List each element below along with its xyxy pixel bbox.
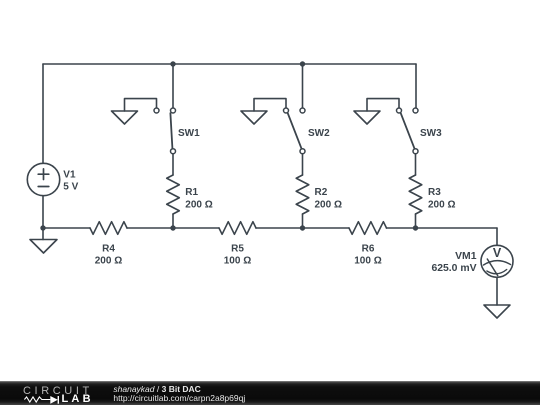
svg-text:5 V: 5 V [63,182,78,193]
node R2 / rail [300,225,305,230]
resistor R5 [219,222,256,235]
node V1 / R4 / ground [40,225,45,230]
switch SW1 [154,108,176,154]
wire R2 to rail [302,214,304,228]
resistor R4 [90,222,127,235]
voltmeter VM1 [481,245,513,277]
label R1 value [185,187,212,210]
svg-text:100 Ω: 100 Ω [224,256,251,267]
wire SW3 to R3 [415,154,417,175]
voltage source V1 [27,163,59,195]
resistor R1 [167,175,180,214]
wire bottom rail segment B [127,227,219,229]
wire SW1 to R1 [172,154,174,175]
label V1 value [63,169,78,192]
svg-text:200 Ω: 200 Ω [428,199,455,210]
node R3 / rail [413,225,418,230]
CircuitLab logo resistor-diode glyph [0,381,110,405]
wire V1 top lead [42,64,44,163]
node at SW2 top [300,61,305,66]
label R3 value [428,187,455,210]
svg-text:R2: R2 [315,187,328,198]
wire top rail [43,63,416,65]
ground (V1) [30,240,57,254]
CircuitLab logo wordmark [23,385,93,397]
svg-text:200 Ω: 200 Ω [315,199,342,210]
wire bottom rail segment C [256,227,349,229]
wire SW2 top drop [302,64,304,108]
svg-text:200 Ω: 200 Ω [95,256,122,267]
svg-text:R5: R5 [231,244,244,255]
footer text line 1 [113,385,200,394]
wire R3 to rail [415,214,417,228]
switch SW1 ground stub wire [125,99,157,111]
svg-text:R3: R3 [428,187,441,198]
label R6 value [354,244,381,267]
ground (VM1) [484,305,510,318]
ground (SW1) [112,111,138,124]
wire bottom rail segment D [387,227,498,229]
svg-text:V: V [493,246,502,260]
wire V1 ground stub [42,228,44,240]
wire VM1 top lead [496,228,498,245]
wire SW1 top drop [172,64,174,108]
svg-text:R1: R1 [185,187,198,198]
wire VM1 bottom lead [496,277,498,305]
wire bottom rail segment A [43,227,90,229]
resistor R6 [349,222,387,235]
switch SW2 ground stub wire [254,99,286,111]
ground (SW2) [241,111,267,124]
resistor R2 [296,175,309,214]
svg-text:SW3: SW3 [420,128,442,139]
svg-text:625.0 mV: 625.0 mV [431,263,476,274]
label R5 value [224,244,251,267]
ground (SW3) [354,111,380,124]
svg-text:R4: R4 [102,244,115,255]
label VM1 value [431,251,476,274]
svg-text:V1: V1 [63,169,76,180]
svg-text:100 Ω: 100 Ω [354,256,381,267]
switch SW3 [397,108,419,154]
node at SW1 top [170,61,175,66]
resistor R3 [409,175,422,214]
svg-text:R6: R6 [362,244,375,255]
wire R1 to rail [172,214,174,228]
node R1 / rail [170,225,175,230]
svg-text:SW2: SW2 [308,128,330,139]
label R2 value [315,187,342,210]
switch SW3 ground stub wire [367,99,399,111]
wire V1 bottom lead [42,196,44,228]
svg-text:SW1: SW1 [178,128,200,139]
wire SW3 top drop [415,64,417,108]
label R4 value [95,244,122,267]
switch SW2 [284,108,306,154]
footer attribution bar [0,381,540,405]
svg-text:VM1: VM1 [455,251,477,262]
svg-text:200 Ω: 200 Ω [185,199,212,210]
wire SW2 to R2 [302,154,304,175]
footer text line 2 [113,394,245,403]
